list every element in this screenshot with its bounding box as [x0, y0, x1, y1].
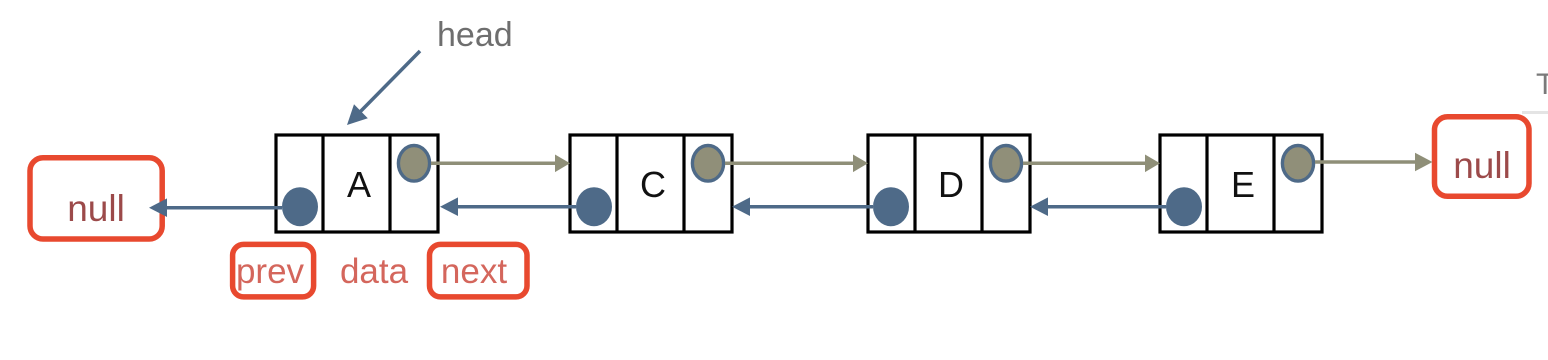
svg-text:prev: prev	[236, 252, 305, 291]
prev arrow D to C	[732, 197, 873, 216]
svg-text:null: null	[1453, 145, 1511, 186]
next arrow A to C	[431, 155, 570, 173]
node D box	[868, 135, 1030, 232]
prev arrow E to D	[1030, 197, 1166, 216]
next arrow E to null	[1315, 153, 1433, 171]
svg-text:T: T	[1536, 68, 1548, 101]
head pointer arrow	[347, 51, 420, 125]
node C next pointer circle	[692, 146, 723, 182]
node D next pointer circle	[990, 146, 1021, 182]
prev field label box	[233, 244, 314, 297]
svg-text:D: D	[938, 164, 964, 205]
svg-text:C: C	[640, 164, 666, 205]
svg-text:head: head	[437, 16, 513, 54]
prev arrow A to null	[149, 198, 282, 217]
next field label box	[430, 244, 528, 297]
node A next pointer circle	[398, 146, 429, 182]
svg-text:null: null	[67, 188, 125, 229]
faint underline at right edge	[1522, 111, 1548, 114]
right null box	[1435, 117, 1530, 197]
node E prev pointer circle	[1166, 187, 1202, 226]
svg-text:A: A	[347, 164, 371, 205]
next arrow D to E	[1023, 155, 1160, 173]
node C prev pointer circle	[576, 187, 612, 226]
svg-text:next: next	[441, 252, 507, 291]
left null box	[30, 158, 162, 239]
svg-text:E: E	[1231, 164, 1255, 205]
node E next pointer circle	[1282, 146, 1313, 182]
svg-text:data: data	[340, 252, 409, 291]
node A prev pointer circle	[282, 187, 318, 226]
node A box	[276, 135, 438, 232]
node C box	[570, 135, 732, 232]
next arrow C to D	[725, 155, 868, 173]
prev arrow C to A	[440, 197, 576, 216]
node E box	[1160, 135, 1322, 232]
node D prev pointer circle	[873, 187, 909, 226]
